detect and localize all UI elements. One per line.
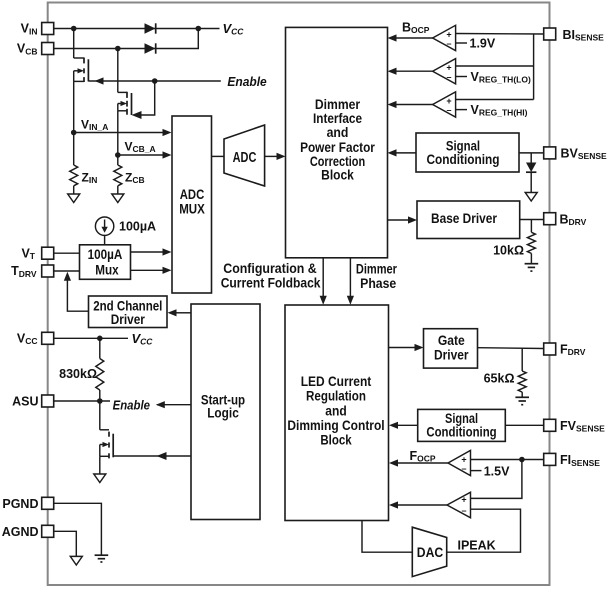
block Signal Conditioning (B) [416, 133, 519, 172]
wire AGND [54, 531, 77, 556]
svg-text:Dimmer: Dimmer [356, 262, 398, 277]
svg-text:Interface: Interface [313, 111, 362, 126]
svg-text:Phase: Phase [360, 276, 396, 291]
wire Start-up Logic to 2nd Channel Driver [168, 309, 192, 316]
pin VT [42, 247, 54, 259]
wire CMP3 minus stub [456, 109, 467, 111]
block 100uA Mux [80, 245, 131, 279]
wire TDRV to 100uA Mux [54, 270, 80, 272]
current source I1 100uA [95, 217, 113, 245]
wire FISENSE branch to CMP5 plus [471, 460, 522, 499]
diode D3 (BV clamp) [526, 163, 536, 193]
diode D1 on VIN rail [145, 23, 156, 33]
svg-text:830kΩ: 830kΩ [59, 367, 97, 381]
transistor M1 (VIN pass FET) [74, 29, 89, 83]
op-amp CMP4 (FOCP) [448, 450, 471, 475]
wire CMP2 plus [456, 65, 534, 67]
svg-text:Conditioning: Conditioning [426, 152, 499, 167]
label 1.9V [470, 37, 496, 51]
pin BDRV [544, 213, 556, 225]
pin ASU [42, 395, 54, 407]
label VCC (inner) [132, 331, 154, 347]
svg-text:Gate: Gate [438, 333, 465, 348]
wire 100uA Mux out2 to ADC MUX [131, 267, 172, 274]
wire PGND [54, 503, 102, 555]
label FISENSE [560, 453, 600, 468]
node VCB branch dot [115, 46, 121, 52]
pin BISENSE [544, 28, 556, 40]
svg-text:Configuration &: Configuration & [223, 261, 317, 276]
wire Start-up Logic to M3 gate [113, 452, 191, 460]
label Enable (ASU) [113, 398, 150, 413]
wire CMP3 plus [456, 99, 534, 101]
wire 2nd Channel Driver to TDRV [64, 272, 89, 311]
svg-text:10kΩ: 10kΩ [493, 244, 524, 258]
svg-text:IPEAK: IPEAK [458, 539, 496, 553]
wire Signal Conditioning F to LED block [389, 422, 418, 429]
wire Gate Driver to FDRV [478, 347, 544, 350]
svg-text:AGND: AGND [2, 525, 39, 539]
svg-text:Block: Block [320, 433, 352, 448]
wire LED block to DAC [362, 521, 412, 553]
label VIN_A [81, 118, 108, 133]
wire VIN_A to ADC MUX [74, 132, 164, 134]
arrow Enable into M1 gate [95, 77, 104, 84]
pin FISENSE [544, 453, 556, 465]
wire VCB rail [54, 29, 199, 49]
svg-text:–: – [446, 72, 451, 82]
wire LED block to Gate Driver [389, 344, 424, 351]
node VIN branch dot [71, 26, 77, 32]
resistor ZCB [114, 155, 122, 194]
label VIN [21, 22, 38, 37]
wire Dimmer to LED (config) [320, 258, 327, 305]
pin BVSENSE [544, 147, 556, 159]
resistor ZIN [70, 133, 78, 195]
svg-text:Current Foldback: Current Foldback [221, 275, 321, 290]
resistor 65k [518, 348, 526, 397]
wire VIN rail [54, 28, 220, 30]
op-amp CMP1 (BOCP) [433, 25, 456, 50]
svg-text:100µA: 100µA [119, 220, 156, 234]
wire CMP5 out to LED block [389, 501, 447, 508]
label 65k [484, 372, 515, 386]
wire CMP3 out to Dimmer [388, 101, 433, 108]
wire FVSENSE to Signal Conditioning F [505, 424, 543, 426]
resistor 10k [527, 220, 535, 264]
svg-text:Driver: Driver [434, 348, 469, 363]
label FDRV [560, 343, 586, 358]
ground ZIN (open triangle) [68, 194, 80, 203]
svg-text:–: – [461, 464, 466, 474]
svg-text:1.5V: 1.5V [484, 465, 510, 479]
transistor M2 (VCB pass FET) [118, 49, 132, 116]
ground 65k (earth bars) [515, 397, 529, 404]
block Signal Conditioning (F) [418, 409, 506, 441]
wire ASU rail [54, 400, 110, 402]
label VT [21, 246, 35, 261]
svg-text:Dimming Control: Dimming Control [287, 418, 384, 433]
node FISENSE dot [519, 457, 525, 463]
svg-text:–: – [461, 506, 466, 516]
ADC converter trapezoid U-ADC [224, 125, 265, 186]
label 10k [493, 244, 524, 258]
label BVSENSE [561, 147, 608, 162]
label 830k [59, 367, 97, 381]
wire CMP4 minus stub [471, 470, 482, 472]
label Dimmer Phase [356, 262, 398, 291]
node VIN_A dot [71, 130, 77, 136]
wire comparator reference feed (vertical) [533, 34, 535, 100]
resistor 830k [96, 338, 104, 401]
label Enable (top) [227, 74, 266, 89]
op-amp CMP5 (IPEAK comparator) [447, 492, 471, 518]
wire Base Driver to BDRV [520, 219, 544, 221]
ground D3 (open triangle) [525, 193, 537, 202]
wire 100uA Mux out1 to ADC MUX [131, 248, 172, 255]
svg-text:Mux: Mux [95, 263, 119, 278]
label Configuration & Current Foldback [221, 261, 321, 291]
ground ZCB (open triangle) [112, 194, 124, 203]
svg-text:+: + [461, 494, 466, 504]
svg-text:Driver: Driver [111, 312, 146, 327]
op-amp CMP3 (VREG_TH HI) [433, 92, 456, 117]
svg-text:ADC: ADC [180, 187, 205, 202]
arrow VCB_A into ADC MUX [163, 151, 172, 158]
svg-text:Logic: Logic [207, 406, 239, 421]
label PGND [2, 497, 38, 511]
pin TDRV [42, 265, 54, 277]
wire Dimmer to LED (dimmer phase) [347, 258, 354, 305]
wire VT to 100uA Mux [54, 252, 80, 254]
label BISENSE [563, 28, 605, 43]
label BOCP [402, 21, 430, 36]
pin PGND [42, 497, 54, 509]
label VCC (top rail) [223, 21, 245, 37]
block 2nd Channel Driver [89, 296, 168, 328]
svg-text:DAC: DAC [417, 545, 443, 561]
wire M3 source to ground [99, 456, 101, 474]
wire VCC pin rail [54, 337, 128, 339]
op-amp CMP2 (VREG_TH LO) [433, 59, 456, 84]
svg-text:1.9V: 1.9V [470, 37, 496, 51]
svg-text:Dimmer: Dimmer [315, 97, 361, 112]
svg-text:and: and [327, 125, 349, 140]
wire BISENSE to CMP1 plus [456, 33, 544, 36]
wire CMP2 minus stub [456, 76, 467, 78]
pin AGND [42, 525, 54, 537]
svg-text:Correction: Correction [310, 154, 365, 169]
label BDRV [560, 212, 587, 227]
label 100uA (current source) [119, 220, 156, 234]
svg-text:and: and [325, 403, 346, 418]
svg-text:Conditioning: Conditioning [426, 424, 496, 439]
svg-text:–: – [446, 105, 451, 115]
label VCB_A [125, 140, 156, 155]
label IPEAK [458, 539, 496, 553]
wire Signal Conditioning B to Dimmer [388, 149, 417, 156]
wire FISENSE to CMP4 plus [471, 459, 544, 461]
wire DAC out to CMP5 minus [447, 509, 521, 552]
pin VCC [42, 332, 54, 344]
ground 10k (earth bars) [525, 264, 539, 271]
block Base Driver [417, 201, 520, 239]
svg-text:Enable: Enable [113, 398, 150, 413]
label FOCP [410, 449, 436, 464]
node Enable branch dot [152, 78, 158, 84]
wire BVSENSE to Signal Conditioning B [519, 152, 544, 154]
wire CMP4 out to LED block [389, 459, 448, 466]
wire ADC to Dimmer block [265, 153, 286, 160]
node VIN-VCC join dot [196, 26, 202, 32]
label VCB [17, 42, 38, 57]
wire M1 source to VIN_A [73, 81, 75, 132]
block Start-up Logic [191, 304, 260, 520]
DAC converter trapezoid U-DAC [412, 527, 446, 576]
wire CMP1 out to Dimmer [388, 34, 433, 41]
svg-text:100µA: 100µA [88, 247, 123, 262]
label VREG_TH(LO) [471, 70, 531, 85]
label VCC-pin [17, 332, 38, 347]
wire CMP1 minus stub [456, 42, 467, 44]
arrow VIN_A into ADC MUX [163, 129, 172, 136]
wire Enable branch to M2 gate [140, 81, 155, 115]
label AGND [2, 525, 39, 539]
svg-text:PGND: PGND [2, 497, 38, 511]
svg-text:Enable: Enable [227, 74, 266, 89]
wire Enable (top) from M1 gate [88, 80, 220, 82]
pin VIN [42, 23, 54, 35]
ground M3 (open triangle) [94, 474, 106, 483]
wire Start-up Logic Enable out [156, 401, 191, 408]
label VREG_TH(HI) [471, 103, 528, 118]
wire BV diode branch [530, 153, 532, 163]
wire Dimmer to Base Driver [388, 216, 418, 223]
svg-text:ADC: ADC [233, 150, 257, 166]
ground PGND (earth bars) [95, 555, 109, 562]
pin FVSENSE [544, 419, 556, 431]
svg-text:Power Factor: Power Factor [300, 140, 375, 155]
transistor M3 (ASU FET) [100, 401, 113, 458]
wire VCB_A to ADC MUX [118, 154, 164, 156]
block Gate Driver [424, 329, 478, 368]
node VCC dot [97, 336, 103, 342]
svg-text:MUX: MUX [179, 201, 205, 216]
svg-text:Base Driver: Base Driver [431, 211, 498, 226]
label TDRV [11, 264, 37, 279]
svg-text:–: – [446, 39, 451, 49]
block ADC MUX [172, 116, 212, 293]
wire M2 source to VCB_A [117, 111, 119, 155]
label 1.5V [484, 465, 510, 479]
label FVSENSE [560, 419, 605, 434]
node ASU dot [97, 398, 103, 404]
diode D2 on VCB rail [145, 43, 156, 53]
block LED Current Regulation and Dimming Control Block [285, 305, 389, 521]
pin VCB [42, 43, 54, 55]
svg-text:ASU: ASU [12, 395, 38, 409]
ground AGND (open triangle) [70, 556, 82, 565]
pin FDRV [544, 343, 556, 355]
arrow into M2 gate [132, 111, 142, 119]
label ASU [12, 395, 38, 409]
svg-text:Block: Block [321, 168, 354, 183]
label ZIN [82, 171, 98, 186]
node VCB_A dot [115, 152, 121, 158]
svg-text:Regulation: Regulation [306, 389, 366, 404]
wire ADC MUX to ADC [212, 155, 225, 157]
wire CMP2 out to Dimmer [388, 68, 433, 75]
label ZCB [125, 171, 145, 186]
svg-text:65kΩ: 65kΩ [484, 372, 515, 386]
svg-text:LED Current: LED Current [301, 374, 372, 389]
block Dimmer Interface and Power Factor Correction Block [286, 27, 388, 257]
